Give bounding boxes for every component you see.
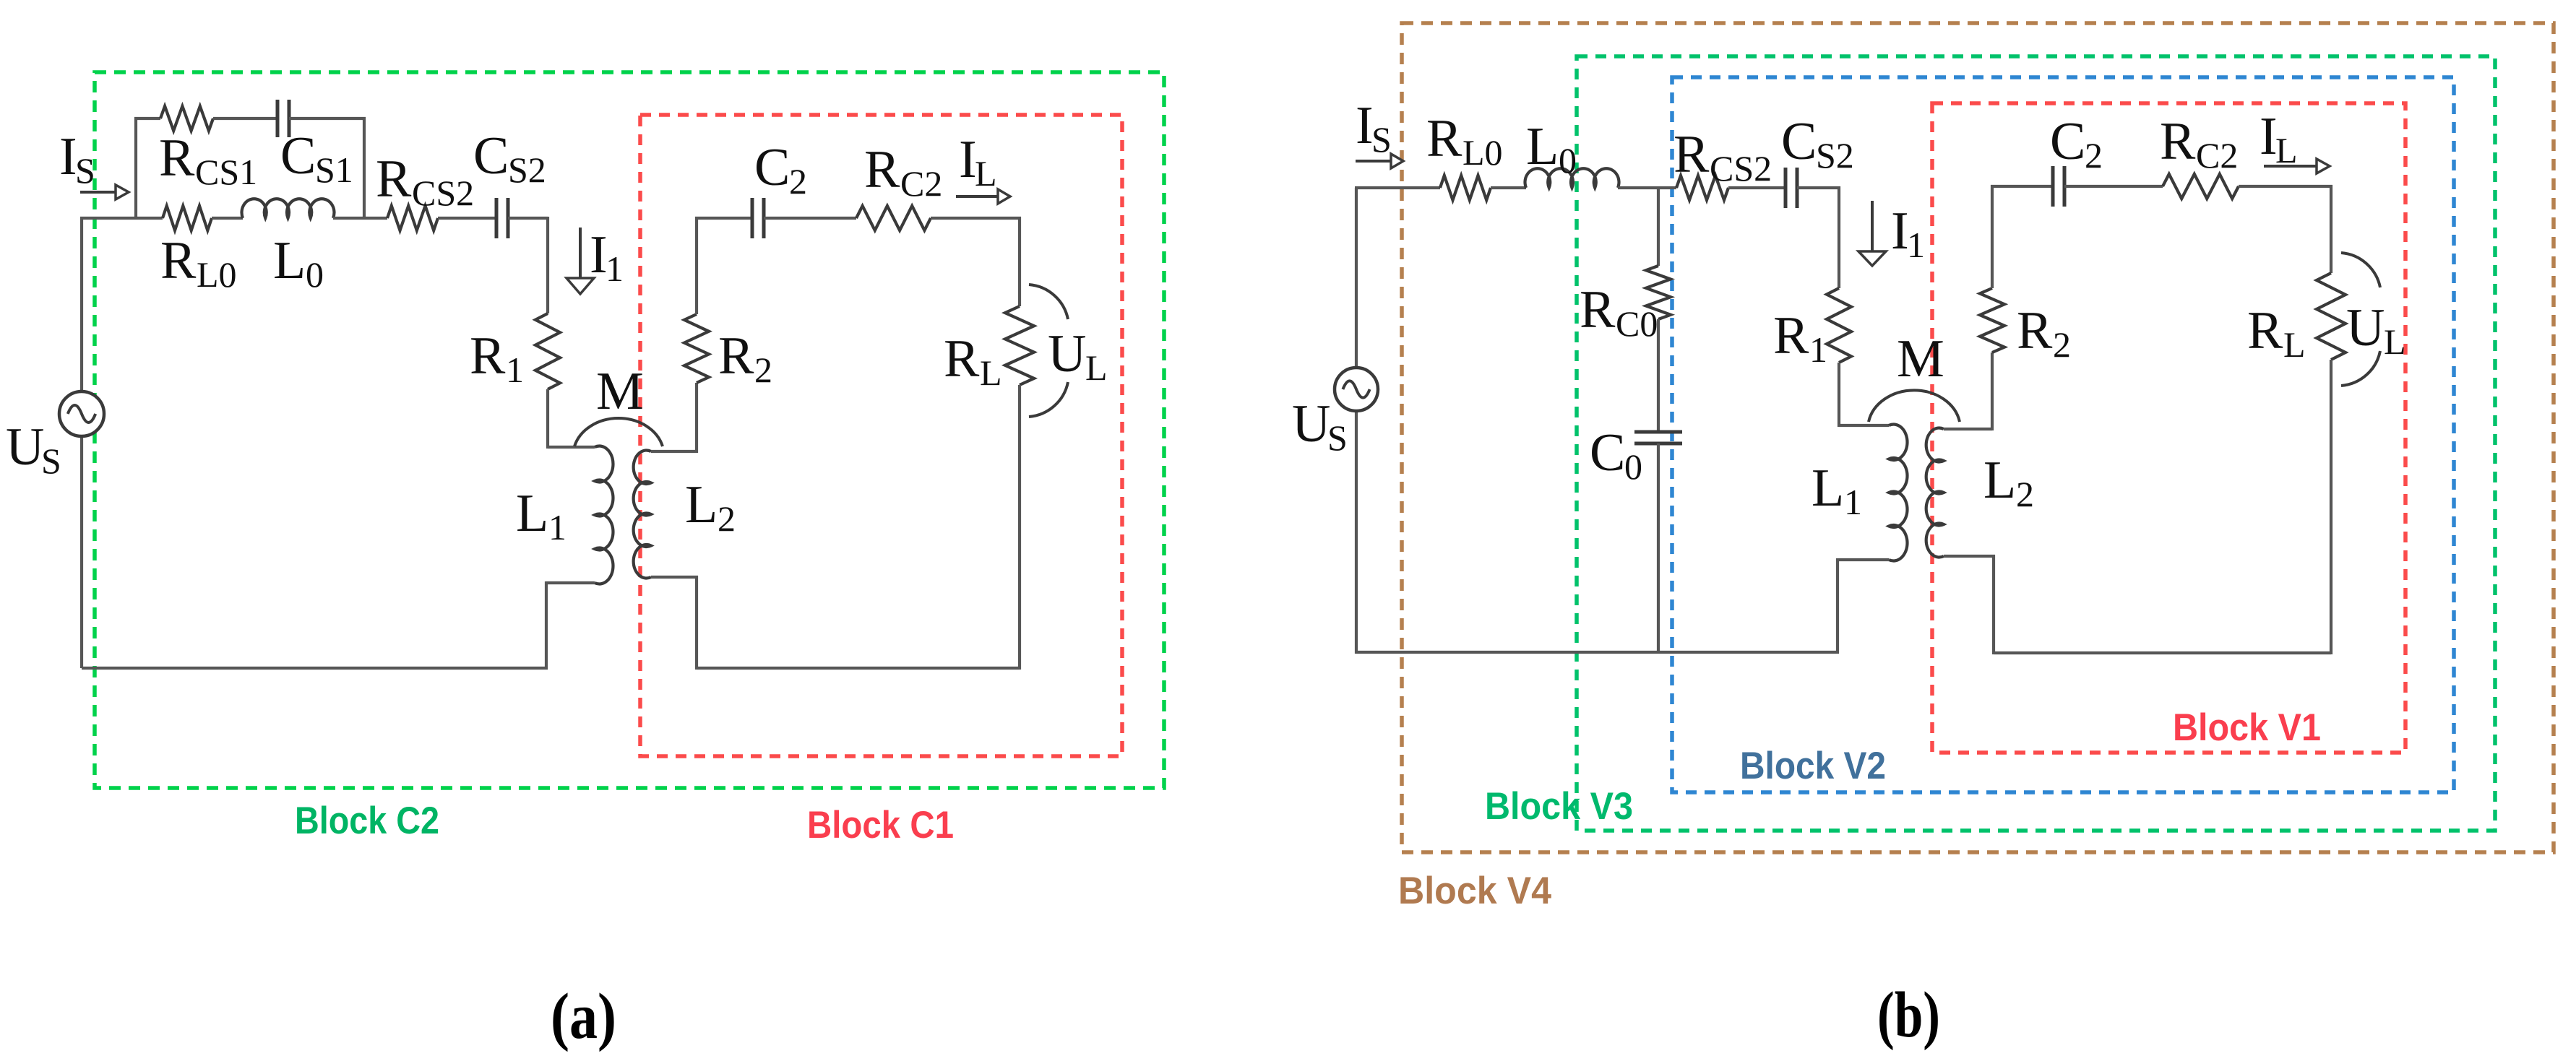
wire C0 down to bottom (b) [1657, 443, 1660, 652]
dashed box Block C1 (red) [640, 115, 1122, 756]
svg-text:S: S [1371, 119, 1392, 160]
svg-text:C0: C0 [1616, 303, 1658, 344]
voltage arc UL bottom (b) [2341, 351, 2380, 386]
svg-text:U: U [6, 417, 44, 477]
wire RCS2 to CS2 (b) [1728, 186, 1785, 189]
svg-text:C: C [473, 126, 509, 186]
svg-text:S2: S2 [1816, 135, 1854, 176]
wire CS1 to branch right (a) [289, 117, 366, 120]
svg-text:CS2: CS2 [1710, 148, 1772, 189]
wire up to L2 bottom stub (a) [695, 576, 698, 670]
svg-text:C: C [1590, 423, 1625, 482]
svg-text:(b): (b) [1877, 979, 1940, 1051]
capacitor CS1 (a) [276, 100, 280, 137]
wire RL0 to L0 (b) [1491, 186, 1526, 189]
svg-text:2: 2 [2085, 135, 2103, 176]
svg-text:L: L [2275, 130, 2298, 170]
resistor R1 (b) [1827, 288, 1851, 363]
wire L2 top to R2 (a) [695, 383, 698, 453]
wire branch left vertical (a) [134, 117, 137, 218]
svg-text:R: R [160, 231, 197, 290]
svg-text:1: 1 [1907, 225, 1925, 265]
resistor R1 (a) [535, 313, 560, 389]
wire R2 up to corner (a) [695, 217, 698, 314]
dashed box Block V1 (red) [1932, 103, 2405, 753]
wire right vertical to RL (b) [2330, 185, 2332, 273]
capacitor C2 (b) [2051, 166, 2055, 207]
svg-text:L: L [273, 231, 306, 290]
wire bottom primary (a) [82, 667, 548, 670]
wire L0 to RCS2 node (b) [1618, 186, 1676, 189]
svg-text:L: L [1526, 117, 1559, 176]
AC source Us (a) [59, 391, 104, 436]
svg-text:M: M [596, 362, 644, 421]
svg-text:L: L [685, 475, 718, 534]
arrow I1 (a) [579, 228, 582, 278]
svg-text:R: R [2247, 301, 2283, 360]
svg-text:R: R [1673, 125, 1710, 184]
resistor RCS2 (a) [387, 206, 438, 230]
arrow IL (a) [956, 195, 998, 198]
wire L1 bottom stub down (b) [1838, 558, 1889, 561]
capacitor C2 (a) [751, 198, 754, 238]
dashed box Block V3 (green) [1577, 56, 2495, 831]
svg-text:S: S [75, 150, 95, 191]
svg-text:L0: L0 [197, 254, 237, 295]
svg-text:S2: S2 [508, 150, 546, 190]
svg-text:Block V1: Block V1 [2173, 706, 2321, 749]
inductor L1 primary coil (b) [1889, 425, 1908, 561]
wire RC2 to right corner (b) [2239, 185, 2332, 188]
inductor L2 secondary coil (a) [634, 451, 651, 579]
wire RCS2 to CS2 (a) [438, 217, 496, 220]
wire top left segment (a) [80, 217, 163, 220]
svg-text:U: U [2346, 298, 2385, 358]
svg-text:S1: S1 [315, 150, 353, 190]
svg-text:R: R [2160, 112, 2196, 171]
resistor RC0 (b) [1646, 266, 1671, 319]
voltage arc UL top (a) [1029, 285, 1068, 319]
svg-text:Block V3: Block V3 [1485, 785, 1633, 828]
dashed box Block C2 (green) [95, 72, 1164, 788]
wire RCS1 to CS1 (a) [213, 117, 277, 120]
inductor L0 (a) [242, 199, 335, 218]
mutual coupling arc M (a) [574, 418, 663, 446]
resistor RCS1 (a) [160, 106, 213, 131]
svg-text:I: I [590, 225, 608, 285]
svg-text:S: S [1327, 417, 1348, 458]
svg-text:R: R [2017, 301, 2053, 360]
arrow Is (b) [1356, 160, 1391, 163]
svg-text:L: L [1983, 451, 2016, 510]
svg-text:1: 1 [1844, 482, 1862, 522]
voltage arc UL top (b) [2341, 253, 2380, 287]
dashed box Block V2 (blue) [1672, 77, 2454, 792]
svg-text:R: R [159, 129, 195, 188]
resistor R2 (a) [684, 314, 709, 383]
capacitor CS2 (b) [1784, 168, 1788, 208]
svg-text:R: R [470, 326, 506, 386]
wire L2 to R2 (b) [1991, 352, 1994, 430]
svg-text:0: 0 [1624, 446, 1642, 487]
svg-text:R: R [1426, 109, 1463, 168]
svg-text:M: M [1897, 329, 1944, 389]
svg-text:I: I [2260, 107, 2278, 166]
inductor L2 secondary coil (b) [1926, 428, 1944, 558]
svg-text:0: 0 [1559, 140, 1577, 181]
wire RL0 to L0 (a) [212, 217, 243, 220]
wire R1 to L1 stub (a) [546, 389, 549, 449]
svg-text:L0: L0 [1463, 132, 1503, 173]
svg-text:R: R [864, 140, 900, 199]
svg-text:I: I [1356, 96, 1374, 155]
wire RC0 to C0 (b) [1657, 319, 1660, 432]
svg-text:L: L [980, 352, 1002, 393]
svg-text:2: 2 [789, 161, 807, 202]
wire L0 to RCS2 (a) [333, 217, 387, 220]
arrow IL (b) [2264, 165, 2317, 168]
wire CS2 to corner (b) [1797, 186, 1840, 189]
svg-text:CS1: CS1 [195, 152, 257, 192]
svg-text:2: 2 [2053, 324, 2071, 365]
arrow I1 (b) [1871, 201, 1874, 251]
svg-text:0: 0 [306, 254, 324, 295]
wire right vertical down to RL (a) [1018, 217, 1021, 306]
wire top left segment (b) [1355, 186, 1440, 189]
svg-text:R: R [718, 326, 754, 386]
svg-text:R: R [944, 329, 980, 389]
svg-text:I: I [59, 127, 77, 186]
svg-text:L: L [1812, 459, 1844, 518]
svg-text:L: L [2283, 324, 2306, 365]
resistor RCS2 (b) [1676, 176, 1728, 200]
svg-text:C: C [754, 138, 790, 197]
wire L2 top stub (b) [1944, 428, 1992, 430]
svg-text:C2: C2 [900, 163, 942, 204]
wire bottom secondary (a) [697, 667, 1020, 670]
resistor RC2 (b) [2163, 174, 2239, 199]
resistor RC2 (a) [856, 206, 931, 230]
svg-text:C: C [280, 126, 316, 186]
wire left vertical Us (b) [1355, 188, 1358, 654]
AC source Us (b) [1335, 368, 1378, 411]
arrow Is (a) [80, 191, 116, 194]
svg-text:C: C [1781, 112, 1817, 171]
svg-text:Block V2: Block V2 [1740, 745, 1886, 787]
wire branch top left (a) [134, 117, 160, 120]
svg-text:I: I [1891, 202, 1909, 261]
wire bottom primary (b) [1356, 651, 1839, 654]
svg-text:CS2: CS2 [412, 173, 474, 213]
wire L2 top stub (a) [651, 450, 697, 453]
wire R1 to L1 stub (b) [1838, 363, 1840, 427]
svg-text:2: 2 [718, 498, 736, 539]
wire bottom secondary (b) [1994, 651, 2331, 654]
svg-text:Block V4: Block V4 [1398, 870, 1551, 912]
resistor RL0 (b) [1440, 176, 1491, 200]
svg-text:1: 1 [506, 350, 524, 390]
wire left vertical from Us up to top (a) [80, 218, 83, 668]
resistor RL load (b) [2317, 273, 2345, 360]
svg-text:R: R [1580, 280, 1616, 339]
svg-text:L: L [2384, 321, 2406, 362]
svg-text:Block C2: Block C2 [295, 800, 439, 842]
svg-text:U: U [1292, 394, 1330, 454]
dashed box Block V4 (brown) [1402, 23, 2554, 852]
wire CS2 to corner (a) [508, 217, 548, 220]
wire corner down to R1 (a) [546, 217, 549, 313]
wire C2 to RC2 (a) [764, 217, 856, 220]
svg-text:2: 2 [2016, 474, 2034, 514]
wire node down to RC0 (b) [1657, 188, 1660, 266]
wire L1 bottom stub down (a) [546, 581, 595, 584]
svg-text:L: L [516, 484, 548, 543]
capacitor C0 (b) [1634, 430, 1682, 434]
wire RC2 to right corner (a) [931, 217, 1021, 220]
inductor L1 primary coil (a) [595, 446, 613, 584]
svg-text:C2: C2 [2196, 135, 2238, 176]
resistor RL load (a) [1005, 306, 1034, 385]
svg-text:U: U [1048, 324, 1086, 384]
svg-text:L: L [1085, 347, 1108, 388]
svg-text:1: 1 [548, 507, 567, 547]
wire R2 up to corner (b) [1991, 185, 1994, 288]
voltage arc UL bottom (a) [1029, 382, 1068, 417]
resistor RL0 (a) [163, 206, 212, 230]
svg-text:(a): (a) [551, 981, 616, 1052]
wire branch right vertical (a) [363, 117, 366, 218]
capacitor CS2 (a) [495, 198, 499, 238]
wire RL down to bottom (a) [1018, 385, 1021, 670]
svg-text:Block C1: Block C1 [807, 804, 954, 846]
svg-text:R: R [376, 150, 412, 209]
svg-text:2: 2 [754, 350, 772, 390]
svg-text:R: R [1773, 306, 1809, 365]
svg-text:1: 1 [1809, 329, 1827, 370]
svg-text:L: L [975, 153, 997, 194]
wire RL down to bottom (b) [2330, 360, 2332, 654]
resistor R2 (b) [1980, 288, 2004, 352]
svg-text:C: C [2050, 112, 2085, 171]
svg-text:1: 1 [606, 248, 624, 289]
wire up to L2 bottom stub (b) [1992, 555, 1995, 654]
wire C2 to RC2 (b) [2064, 185, 2163, 188]
wire corner down to R1 (b) [1838, 186, 1840, 288]
svg-text:S: S [41, 441, 61, 481]
inductor L0 (b) [1525, 168, 1619, 188]
mutual coupling arc M (b) [1869, 390, 1960, 422]
svg-text:I: I [959, 130, 977, 189]
